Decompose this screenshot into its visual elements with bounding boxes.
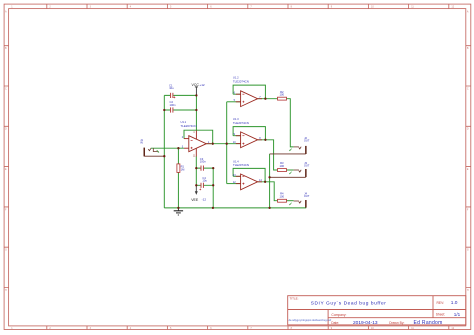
svg-text:D: D xyxy=(467,128,469,131)
wire U1.3 feedback loop xyxy=(233,127,265,140)
power flag VCC xyxy=(192,83,205,95)
wire input bus vertical xyxy=(226,102,228,184)
svg-text:G: G xyxy=(467,249,469,252)
junction U1.3 output xyxy=(264,139,266,141)
wire left vertical (ground side) xyxy=(163,95,165,207)
op-amp U1.2 xyxy=(233,76,262,107)
wire R3 to J3 tip xyxy=(287,169,294,171)
svg-text:OUT: OUT xyxy=(304,139,310,143)
title text xyxy=(289,296,461,326)
svg-text:100n: 100n xyxy=(170,103,176,107)
junction U1.2 output xyxy=(264,98,266,100)
wire VEE column and C3 C4 rows xyxy=(196,157,213,208)
resistor R2 xyxy=(278,90,287,100)
svg-text:Date:: Date: xyxy=(331,321,339,325)
svg-text:10u: 10u xyxy=(169,86,174,90)
svg-text:G: G xyxy=(5,249,7,252)
svg-text:D: D xyxy=(5,128,7,131)
svg-text:Company:: Company: xyxy=(331,313,346,317)
wire U1.1 output to U1.3 pin10 xyxy=(206,143,240,145)
junction input R1 xyxy=(177,147,179,149)
wire U1.1 feedback loop xyxy=(184,130,213,144)
svg-text:1/1: 1/1 xyxy=(454,312,461,317)
wire U1.2 feedback loop xyxy=(233,85,265,99)
svg-text:+12: +12 xyxy=(199,83,205,87)
svg-text:Ed Random: Ed Random xyxy=(414,320,443,326)
svg-text:REV:: REV: xyxy=(437,301,445,305)
svg-text:100: 100 xyxy=(280,164,285,168)
svg-text:VEE: VEE xyxy=(191,198,199,202)
wire input J1 to pin3 xyxy=(151,147,184,149)
svg-text:OUT: OUT xyxy=(304,164,310,168)
op-amp U1.3 xyxy=(233,117,262,148)
junction U1.1 feedback-output xyxy=(212,143,214,145)
junction C3 right xyxy=(212,167,214,169)
junction C2 left xyxy=(163,109,165,111)
resistor R4 xyxy=(278,192,287,203)
junction U1.4 output xyxy=(264,181,266,183)
wire bus to U1.2 pin5 xyxy=(227,101,241,103)
capacitor C4 xyxy=(199,176,207,191)
junction rail caps xyxy=(212,207,214,209)
svg-text:de.sdiyguy.blogspot.de/dead-bu: de.sdiyguy.blogspot.de/dead-bug-buf xyxy=(289,318,332,322)
svg-text:VCC: VCC xyxy=(192,83,200,87)
svg-text:IN: IN xyxy=(140,140,143,144)
svg-text:-12: -12 xyxy=(202,198,207,202)
svg-text:100n: 100n xyxy=(200,160,206,164)
junction C4 right xyxy=(212,184,214,186)
junction C3 left xyxy=(195,167,197,169)
svg-text:TITLE:: TITLE: xyxy=(290,296,299,300)
wire U1.4 feedback loop xyxy=(233,168,265,181)
junction C1-VCC xyxy=(195,94,197,96)
power flag VEE xyxy=(191,185,206,202)
svg-text:OUT: OUT xyxy=(304,194,310,198)
wire ground rail xyxy=(164,207,306,209)
capacitor C3 xyxy=(200,157,206,171)
op-amp U1.1 xyxy=(181,120,212,157)
resistor R3 xyxy=(278,161,287,172)
title block xyxy=(288,296,466,325)
junction C2 right xyxy=(195,109,197,111)
wire bus to U1.4 pin12 xyxy=(227,183,241,185)
junction J3 sleeve chain xyxy=(268,176,270,178)
connector J4 xyxy=(289,192,310,208)
resistor R1 xyxy=(177,164,185,173)
junction rail R1 xyxy=(177,207,179,209)
wire U1.4 output to R4 xyxy=(258,182,278,201)
svg-text:H: H xyxy=(5,289,7,292)
svg-text:Sheet:: Sheet: xyxy=(436,313,446,317)
svg-text:SDIY Guy´s Dead bug buffer: SDIY Guy´s Dead bug buffer xyxy=(311,301,387,307)
wire U1.3 output to R3 xyxy=(258,140,278,170)
wire VCC vertical xyxy=(195,95,197,130)
junction bus node xyxy=(226,143,228,145)
junction J1 sleeve xyxy=(163,155,165,157)
wire C2 row xyxy=(164,109,196,111)
ground xyxy=(174,208,183,215)
svg-text:100: 100 xyxy=(280,194,285,198)
svg-text:C: C xyxy=(467,87,469,90)
svg-text:TLE2074CN: TLE2074CN xyxy=(233,121,249,125)
svg-text:Drawn By:: Drawn By: xyxy=(389,321,404,325)
wire R1 leads xyxy=(177,148,179,208)
svg-text:TLE2074CN: TLE2074CN xyxy=(181,124,197,128)
svg-text:10u: 10u xyxy=(202,179,207,183)
capacitor C1 xyxy=(169,83,175,98)
connector J2 xyxy=(270,136,310,154)
wire U1.2 output to R2 xyxy=(258,98,278,100)
wire C1 top row xyxy=(164,94,196,96)
svg-text:C: C xyxy=(5,87,7,90)
svg-text:2019-04-13: 2019-04-13 xyxy=(353,320,378,326)
svg-text:H: H xyxy=(467,289,469,292)
capacitor C2 xyxy=(170,100,176,113)
wire jack sleeve ground chain xyxy=(269,154,271,208)
junction C4 left VEE xyxy=(195,184,197,186)
connector J3 xyxy=(270,161,310,177)
connector J1 xyxy=(140,138,164,157)
svg-text:TLE2074CN: TLE2074CN xyxy=(233,163,249,167)
svg-text:100: 100 xyxy=(280,93,285,97)
op-amp U1.4 xyxy=(233,159,262,189)
junction rail sleeve chain xyxy=(268,207,270,209)
wire R4 to J4 tip xyxy=(287,200,294,202)
wire R2 to J2 tip xyxy=(287,99,294,147)
svg-text:1.0: 1.0 xyxy=(451,300,458,306)
svg-text:TLE2074CN: TLE2074CN xyxy=(233,79,249,83)
